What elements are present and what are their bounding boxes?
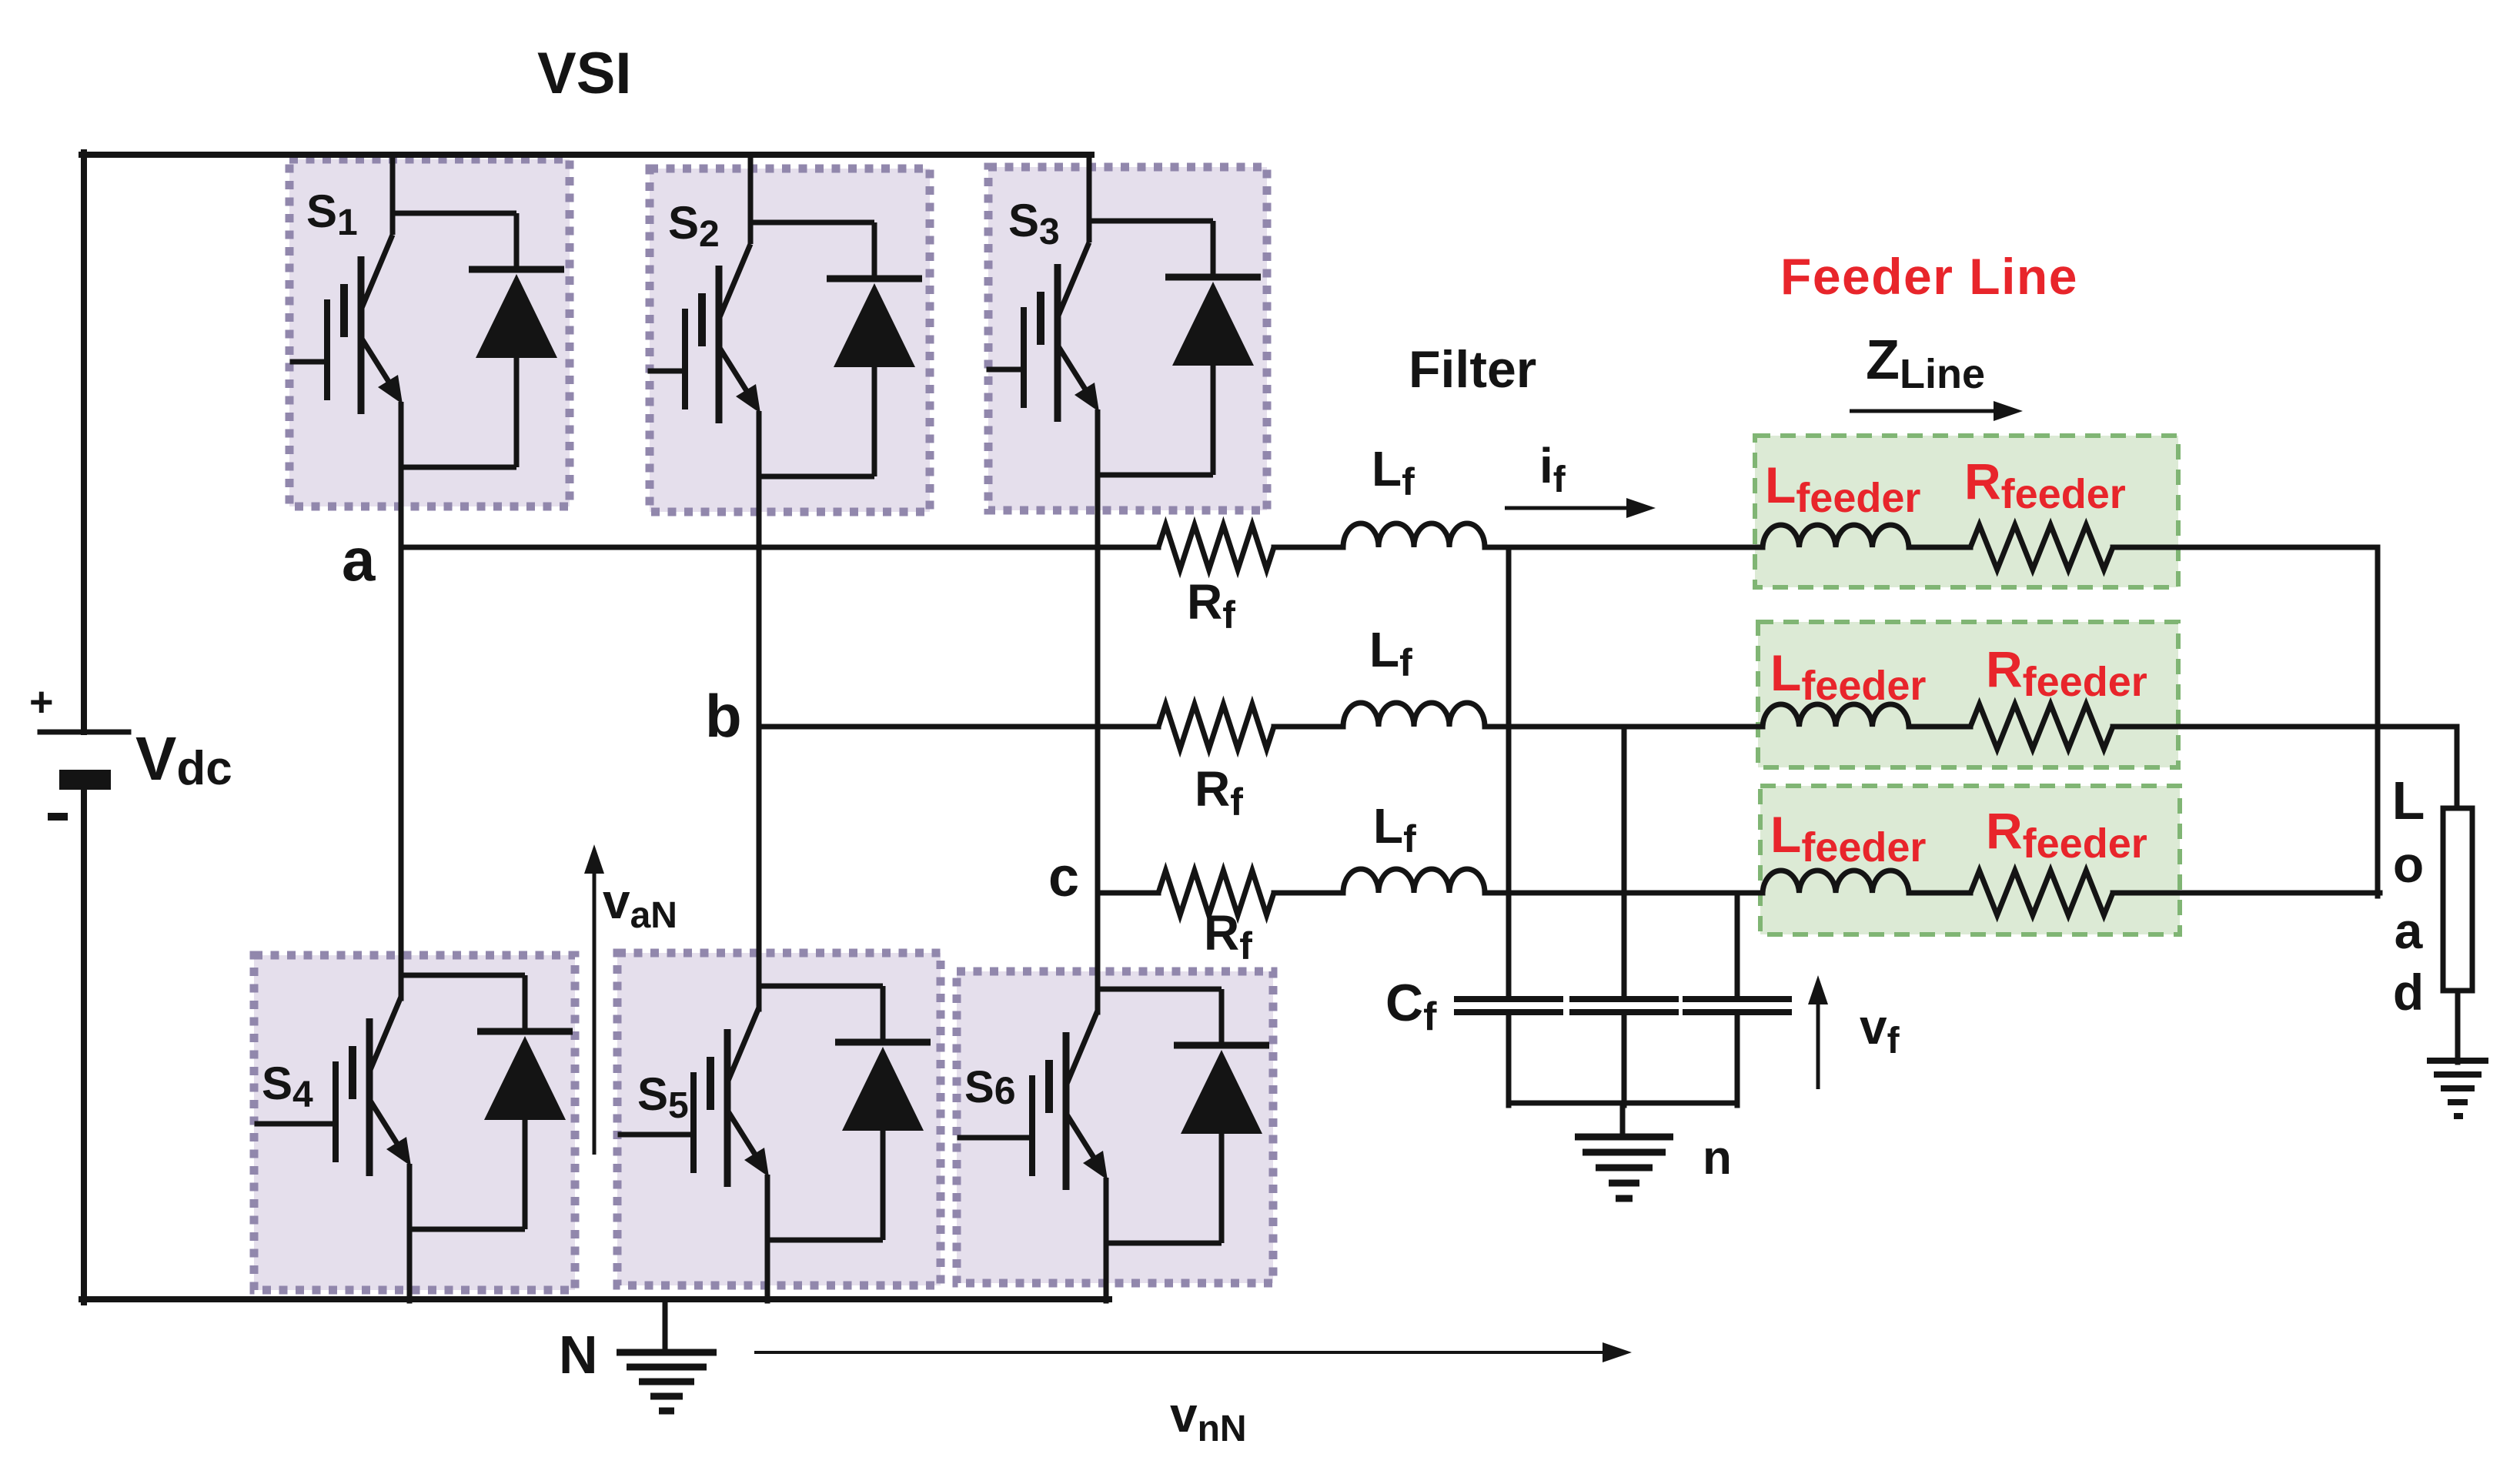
- inductor Lf phase b: [1343, 703, 1485, 727]
- svg-text:a: a: [2395, 902, 2424, 959]
- wire: drop from phase a to Cf: [1506, 547, 1512, 998]
- ground below load: [2427, 1058, 2488, 1064]
- arrow if: [1505, 506, 1631, 510]
- svg-text:d: d: [2393, 964, 2424, 1021]
- wire: bottom rail: [82, 1296, 1109, 1302]
- wire: phase a Rf to Lf: [1274, 545, 1343, 550]
- transistor+diode S1: [292, 213, 564, 467]
- wire: phase a Lf to feeder: [1485, 545, 1763, 550]
- gate lead wire S6: [960, 1135, 998, 1141]
- inductor Lf phase a: [1343, 523, 1485, 547]
- wire: S2 emitter to node b: [757, 476, 762, 730]
- gate lead wire S2: [650, 369, 653, 374]
- resistor Rfeeder phase a: [1970, 525, 2113, 570]
- resistor Rfeeder phase b: [1970, 704, 2113, 749]
- IGBT switch cell S3 box: [988, 167, 1267, 510]
- transistor+diode S5: [659, 986, 931, 1240]
- wire: S4 collector from node a: [399, 547, 404, 998]
- wire: S3 emitter to node c: [1095, 475, 1101, 896]
- gate lead wire S4: [257, 1121, 301, 1127]
- svg-text:Cf: Cf: [1385, 974, 1437, 1039]
- svg-text:L: L: [2392, 770, 2425, 831]
- wire: S6 collector from node c: [1095, 893, 1101, 1012]
- feeder line green box row c: [1760, 786, 2180, 934]
- capacitor Cf phase a: [1457, 996, 1560, 1002]
- wire: Cf c bottom stub: [1735, 1014, 1740, 1105]
- svg-text:Rf: Rf: [1187, 574, 1235, 637]
- wire: phase a between Lfeeder Rfeeder: [1909, 545, 1970, 550]
- wire: phase a right segment: [2113, 545, 2378, 550]
- wire: phase c between Lfeeder Rfeeder: [1909, 891, 1970, 896]
- svg-text:ZLine: ZLine: [1866, 329, 1985, 397]
- IGBT switch cell S1 box: [289, 159, 570, 506]
- wire: phase b Lf to feeder: [1485, 724, 1763, 730]
- inductor Lfeeder phase b: [1763, 704, 1909, 727]
- ground N: [617, 1349, 717, 1356]
- feeder line green box row a: [1755, 436, 2178, 587]
- ground n: [1575, 1134, 1673, 1141]
- resistor Rfeeder phase c: [1970, 871, 2113, 915]
- wire: stub to ground n: [1620, 1103, 1626, 1138]
- wire: capacitor common rail: [1509, 1101, 1737, 1106]
- wire: left vertical (Vdc -): [81, 790, 87, 1302]
- resistor Rf phase b: [1158, 704, 1274, 749]
- IGBT switch cell S6 box: [957, 971, 1273, 1283]
- svg-text:Feeder Line: Feeder Line: [1780, 248, 2078, 305]
- IGBT switch cell S5 box: [617, 953, 941, 1285]
- svg-text:vnN: vnN: [1170, 1387, 1247, 1449]
- battery Vdc: long plate: [40, 730, 129, 735]
- wire: Cf a bottom stub: [1506, 1014, 1512, 1105]
- IGBT switch cell S2 box: [650, 169, 930, 512]
- wire: S2 collector from top rail: [748, 155, 754, 224]
- wire: load top lead: [2455, 801, 2460, 810]
- wire: phase b line left: [759, 724, 1158, 730]
- arrow vaN: [593, 869, 597, 1155]
- arrow ZLine: [1850, 409, 1998, 413]
- wire: Cf b bottom stub: [1622, 1014, 1627, 1105]
- arrow vnN: [754, 1351, 1607, 1354]
- svg-text:vf: vf: [1860, 999, 1900, 1061]
- svg-text:Vdc: Vdc: [135, 724, 232, 795]
- feeder line green box row b: [1758, 622, 2178, 767]
- svg-text:if: if: [1539, 438, 1566, 500]
- svg-text:vaN: vaN: [603, 874, 677, 936]
- transistor+diode S6: [998, 989, 1269, 1243]
- wire: S1 collector from top rail: [390, 155, 396, 215]
- wire: top DC rail: [82, 152, 1091, 158]
- wire: S5 collector from node b: [757, 727, 762, 1009]
- svg-text:n: n: [1703, 1131, 1732, 1185]
- gate lead wire S5: [620, 1132, 659, 1138]
- gate lead wire S1: [290, 359, 296, 365]
- wire: phase a vertical drop right: [2375, 547, 2381, 896]
- inductor Lf phase c: [1343, 869, 1485, 893]
- wire: stub to ground N: [663, 1299, 668, 1352]
- wire: S4 emitter to bottom rail: [407, 1229, 413, 1301]
- wire: phase a line left: [401, 545, 1158, 550]
- svg-text:S6: S6: [964, 1062, 1016, 1112]
- svg-text:VSI: VSI: [537, 41, 632, 106]
- wire: drop from phase c to Cf: [1735, 893, 1740, 998]
- wire: phase b Rf to Lf: [1274, 724, 1343, 730]
- load resistor box: [2443, 808, 2472, 991]
- label -: [48, 813, 68, 821]
- battery Vdc: short thick plate: [59, 770, 111, 790]
- resistor Rf phase a: [1158, 525, 1274, 570]
- wire: S6 emitter to bottom rail: [1104, 1243, 1109, 1301]
- svg-text:N: N: [559, 1325, 598, 1385]
- wire: phase c right segment: [2113, 891, 2380, 896]
- inductor Lfeeder phase a: [1763, 525, 1909, 547]
- wire: load bottom lead: [2455, 991, 2461, 1062]
- resistor Rf phase c: [1158, 871, 1274, 915]
- svg-text:Lf: Lf: [1373, 798, 1416, 861]
- svg-text:Rf: Rf: [1204, 905, 1252, 968]
- wire: phase c line left: [1098, 891, 1158, 896]
- transistor+diode S3: [989, 221, 1261, 475]
- svg-text:Lf: Lf: [1369, 622, 1412, 684]
- svg-text:b: b: [705, 682, 742, 750]
- wire: phase c Lf to feeder: [1485, 891, 1763, 896]
- wire: phase c Rf to Lf: [1274, 891, 1343, 896]
- svg-text:Filter: Filter: [1409, 340, 1536, 399]
- svg-text:+: +: [29, 679, 54, 725]
- svg-text:c: c: [1048, 847, 1079, 908]
- wire: S1 emitter to node a: [399, 467, 404, 550]
- transistor+diode S2: [650, 222, 922, 476]
- svg-text:a: a: [342, 526, 376, 593]
- IGBT switch cell S4 box: [254, 955, 575, 1290]
- capacitor Cf phase c: [1686, 996, 1789, 1002]
- capacitor Cf phase b: [1572, 996, 1676, 1002]
- wire: phase b between Lfeeder Rfeeder: [1909, 724, 1970, 730]
- wire: phase b drop to load: [2455, 727, 2460, 808]
- svg-text:Lf: Lf: [1372, 441, 1415, 503]
- wire: S5 emitter to bottom rail: [765, 1240, 770, 1301]
- wire: drop from phase b to Cf: [1622, 727, 1627, 998]
- wire: S3 collector from top rail: [1087, 155, 1092, 222]
- inductor Lfeeder phase c: [1763, 871, 1909, 893]
- wire: left vertical (Vdc +): [81, 152, 87, 732]
- arrow vf: [1816, 1000, 1820, 1089]
- svg-text:o: o: [2393, 836, 2424, 893]
- wire: phase b right segment: [2113, 724, 2457, 730]
- gate lead wire S3: [989, 367, 991, 373]
- transistor+diode S4: [301, 975, 573, 1229]
- svg-text:Rf: Rf: [1195, 761, 1243, 824]
